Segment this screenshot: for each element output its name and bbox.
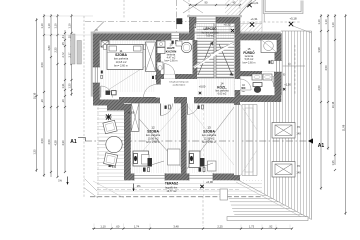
svg-text:1,31: 1,31 bbox=[61, 83, 65, 89]
svg-text:4,50: 4,50 bbox=[40, 62, 44, 68]
svg-text:4,50: 4,50 bbox=[40, 138, 44, 144]
svg-text:3,98: 3,98 bbox=[317, 47, 321, 53]
svg-text:2,25: 2,25 bbox=[217, 225, 223, 229]
svg-text:1,10: 1,10 bbox=[67, 23, 71, 29]
svg-text:1,10: 1,10 bbox=[53, 23, 57, 29]
svg-text:10,90 m2: 10,90 m2 bbox=[148, 137, 159, 141]
svg-text:10,16: 10,16 bbox=[331, 101, 335, 108]
svg-text:+0,00: +0,00 bbox=[199, 85, 206, 89]
svg-text:lam.parketta: lam.parketta bbox=[146, 133, 161, 137]
svg-text:WC: WC bbox=[241, 87, 245, 90]
svg-text:1,35: 1,35 bbox=[67, 83, 71, 89]
svg-text:,20: ,20 bbox=[61, 99, 65, 103]
svg-text:+1,50: +1,50 bbox=[284, 83, 291, 87]
svg-text:+5,18: +5,18 bbox=[289, 17, 297, 21]
svg-text:LÉPCSŐ: LÉPCSŐ bbox=[203, 26, 217, 31]
svg-text:,25: ,25 bbox=[61, 42, 65, 46]
svg-text:ker.: ker. bbox=[242, 90, 246, 93]
svg-text:7,09 m2: 7,09 m2 bbox=[206, 35, 215, 38]
svg-text:2,72: 2,72 bbox=[61, 52, 65, 58]
svg-text:SZOBA: SZOBA bbox=[115, 53, 127, 57]
svg-text:1,74: 1,74 bbox=[134, 225, 140, 229]
svg-text:SZOBA: SZOBA bbox=[203, 130, 215, 134]
svg-text:bm= 2,60 m: bm= 2,60 m bbox=[165, 60, 178, 63]
svg-text:SZOBA: SZOBA bbox=[147, 130, 159, 134]
svg-text:4,30: 4,30 bbox=[61, 140, 65, 146]
svg-text:1,73: 1,73 bbox=[249, 225, 255, 229]
svg-text:bm= 2,60 m: bm= 2,60 m bbox=[114, 63, 128, 67]
svg-text:lehajtható fölépcsőn: lehajtható fölépcsőn bbox=[169, 81, 189, 84]
svg-text:bm= 2,60 m: bm= 2,60 m bbox=[202, 140, 216, 144]
svg-text:10,16: 10,16 bbox=[32, 92, 36, 99]
svg-text:A1: A1 bbox=[70, 139, 77, 145]
svg-text:bm= 2,60 m: bm= 2,60 m bbox=[243, 61, 256, 64]
svg-text:1,10: 1,10 bbox=[324, 19, 328, 25]
svg-text:1,35: 1,35 bbox=[32, 149, 36, 155]
svg-text:3,48: 3,48 bbox=[173, 225, 179, 229]
svg-text:140: 140 bbox=[296, 132, 301, 136]
svg-text:6,63 m2: 6,63 m2 bbox=[218, 93, 227, 96]
svg-text:13,18 m2: 13,18 m2 bbox=[116, 60, 127, 64]
svg-text:140: 140 bbox=[296, 171, 301, 175]
svg-text:padlásfeljáró: padlásfeljáró bbox=[173, 84, 186, 87]
svg-text:1,10: 1,10 bbox=[47, 23, 51, 29]
svg-text:3,80: 3,80 bbox=[47, 45, 51, 51]
svg-text:1,10: 1,10 bbox=[40, 23, 44, 29]
svg-text:,60: ,60 bbox=[116, 225, 120, 229]
svg-text:1,35: 1,35 bbox=[331, 160, 335, 166]
svg-text:12,05 m2: 12,05 m2 bbox=[204, 137, 215, 141]
svg-text:+1,31: +1,31 bbox=[250, 17, 258, 21]
svg-text:4,38: 4,38 bbox=[53, 140, 57, 146]
svg-text:+1,00: +1,00 bbox=[128, 111, 135, 115]
svg-text:lam.parketta: lam.parketta bbox=[114, 57, 129, 61]
svg-text:2,35: 2,35 bbox=[53, 47, 57, 53]
svg-text:4,50: 4,50 bbox=[324, 65, 328, 71]
svg-text:lam.parketta: lam.parketta bbox=[202, 133, 217, 137]
svg-text:,92: ,92 bbox=[269, 225, 273, 229]
svg-text:1,10: 1,10 bbox=[317, 19, 321, 25]
svg-text:,41: ,41 bbox=[61, 35, 65, 39]
svg-text:TERASZ: TERASZ bbox=[165, 182, 178, 186]
svg-text:1,10: 1,10 bbox=[331, 22, 335, 28]
svg-text:+0,00: +0,00 bbox=[206, 180, 213, 184]
svg-text:1,10: 1,10 bbox=[100, 225, 106, 229]
svg-text:+0,32: +0,32 bbox=[224, 23, 231, 27]
svg-text:,20: ,20 bbox=[40, 99, 44, 103]
svg-text:+1,21: +1,21 bbox=[252, 1, 259, 5]
svg-text:19,77 m2: 19,77 m2 bbox=[167, 190, 178, 193]
svg-text:2,50: 2,50 bbox=[317, 85, 321, 91]
svg-text:4,50: 4,50 bbox=[47, 139, 51, 145]
svg-text:bm= 2,60 m: bm= 2,60 m bbox=[146, 140, 160, 144]
svg-text:11,98: 11,98 bbox=[341, 124, 345, 131]
